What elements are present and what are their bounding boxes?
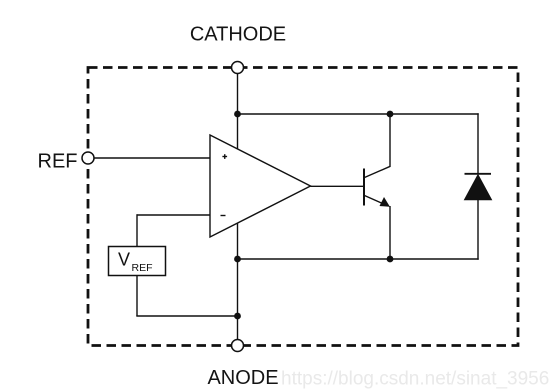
wire base: op-amp output to transistor base [311,185,365,187]
wire Vref return: box bottom down and right to anode column [136,276,238,317]
anode terminal [232,340,244,352]
cathode terminal [232,62,244,74]
svg-text:CATHODE: CATHODE [190,24,286,46]
wire cathode drop: top terminal to op-amp top edge [237,74,239,149]
wire top rail: cathode node to right column [238,113,479,115]
IC boundary dashed box [88,68,518,346]
diode D1 [465,174,492,200]
wire emitter drop [389,206,391,259]
svg-text:https://blog.csdn.net/sinat_39: https://blog.csdn.net/sinat_39560 [281,369,549,390]
wire collector riser [389,114,391,167]
svg-text:REF: REF [38,151,78,173]
node: collector junction [387,111,394,118]
wire right column upper: top rail to diode cathode [477,113,479,174]
ref terminal [82,152,94,164]
node: emitter junction [387,256,394,263]
node: anode rail junction [234,256,241,263]
wire minus input: Vref corner to op-amp - input [137,214,211,247]
op-amp U1 [210,135,311,237]
Vref reference box [109,247,166,276]
node: cathode rail junction [234,111,241,118]
wire right column lower: diode anode to bottom rail [477,199,479,260]
transistor Q1 [364,166,391,207]
svg-text:V: V [118,250,130,270]
svg-text:REF: REF [132,262,153,274]
wire anode column: op-amp bottom edge through nodes to bottom terminal [237,223,239,340]
wire REF input: left terminal to op-amp + input [94,157,210,159]
wire bottom rail: anode node to right column [238,258,479,260]
node: Vref return junction [234,313,241,320]
svg-text:ANODE: ANODE [207,367,278,389]
